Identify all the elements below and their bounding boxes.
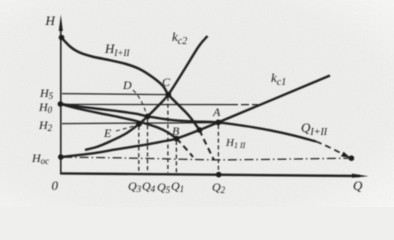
vertical dashed line Q2 under A (217, 125, 219, 174)
node Q2 on axis (216, 172, 222, 178)
node dot H0 on axis (58, 101, 64, 107)
node right end of Q_I+II (349, 155, 355, 161)
node E (136, 121, 142, 127)
vertical dashed line Q3 under E (138, 126, 140, 172)
svg-text:E: E (103, 126, 112, 140)
vertical dashed line Q5 under C (167, 97, 169, 173)
curve Q_I+II (combined) solid through D and A (60, 104, 316, 142)
node A (215, 120, 221, 126)
curve H_I+II solid part (62, 38, 200, 131)
node B (174, 136, 180, 142)
vertical dashed line Q1 under B (175, 141, 177, 173)
system curve k_c1 (61, 76, 330, 158)
node dot Hoc on axis (58, 154, 64, 160)
node D (145, 114, 151, 120)
curve H_I+II dashed tail (200, 130, 215, 160)
x-axis Q (60, 173, 369, 177)
node dot top of H_I+II (59, 35, 65, 41)
curve Q_I dashed tail (177, 139, 194, 157)
svg-text:H: H (45, 13, 56, 28)
curve Q_I+II dashed tail with arrow (316, 142, 345, 156)
level line H5 to point C (62, 94, 168, 95)
svg-text:0: 0 (52, 178, 59, 193)
svg-text:D: D (122, 78, 132, 92)
svg-text:A: A (212, 105, 221, 119)
node F unlabeled (197, 127, 203, 133)
svg-text:Q: Q (353, 178, 363, 193)
y-axis H (59, 15, 63, 175)
system curve k_c2 (85, 36, 208, 150)
level line H2 through E to A (62, 123, 218, 124)
curve Q_I (pump I) solid (60, 104, 176, 139)
node C (165, 92, 171, 98)
level line H0 to k_c1 (61, 103, 238, 105)
leader to point D (133, 90, 146, 113)
svg-text:B: B (172, 124, 180, 138)
vertical dashed line Q4 under D (147, 119, 149, 173)
leader to point E (116, 126, 136, 132)
dash-dot line at Hoc level (63, 157, 349, 160)
svg-text:C: C (162, 75, 171, 89)
